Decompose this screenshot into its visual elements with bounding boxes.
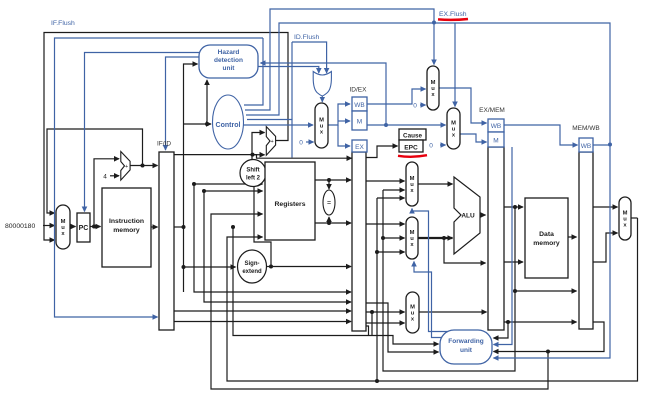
svg-text:Data: Data xyxy=(539,231,554,238)
wire ID/EX rt to forwarding unit xyxy=(366,303,439,352)
junction ID.Flush corner xyxy=(291,42,293,120)
svg-text:detection: detection xyxy=(214,57,243,64)
svg-text:0: 0 xyxy=(299,140,303,147)
wire ID.Flush from Control xyxy=(247,120,292,158)
wire store value to EX/MEM xyxy=(444,238,486,263)
wire EX/MEM rd to forwarding unit blue xyxy=(494,147,513,345)
ID/EX M box xyxy=(352,111,367,130)
wire rd lane from IF/ID xyxy=(174,321,351,323)
wire mux4 output xyxy=(631,217,638,219)
junction rd bus xyxy=(231,225,235,229)
wire instruction field to sign-extend xyxy=(184,266,236,268)
junction EX/MEM forward B xyxy=(381,236,385,240)
wire ForwardB from forwarding unit xyxy=(414,262,444,338)
svg-text:WB: WB xyxy=(491,123,501,130)
wire MEM/WB forward path to mux A xyxy=(377,197,405,199)
MEM/WB WB box xyxy=(579,138,593,152)
junction MEM/WB forward B xyxy=(375,250,379,254)
sign extend unit xyxy=(238,250,267,283)
mux M6 ALU input B xyxy=(406,217,418,259)
wire EX/MEM ALU result to data memory xyxy=(504,206,523,208)
svg-text:Registers: Registers xyxy=(275,201,306,208)
wire hazard detection PCWrite to PC xyxy=(85,53,200,212)
wire write data return xyxy=(227,218,638,381)
ID/EX pipeline register xyxy=(352,152,366,331)
wire MEM/WB ALU result to mux4 xyxy=(593,233,618,262)
wire IF.Flush from top-left down to IF/ID xyxy=(55,38,264,317)
junction write reg branch xyxy=(546,350,550,354)
wire ForwardA from forwarding unit xyxy=(412,209,452,332)
wire MEM/WB forward to mux B xyxy=(377,251,405,253)
wire shift-left-2 up to adder2 top input xyxy=(252,133,265,162)
wire mux2 out to EX/MEM M xyxy=(460,134,487,142)
wire IF/ID PC+4 lane xyxy=(174,154,253,156)
wire Control to ID.Flush mux xyxy=(243,124,313,126)
wire PC+4 to PC-mux top input xyxy=(47,129,143,213)
wire rt down join xyxy=(371,312,373,336)
svg-text:ALU: ALU xyxy=(461,213,475,220)
svg-text:EX: EX xyxy=(355,144,364,151)
wire ID/EX rd to mux3 xyxy=(366,322,405,324)
red underline EPC xyxy=(398,155,427,157)
wire read data 1 to ID/EX xyxy=(315,179,351,181)
OR gate xyxy=(313,72,331,97)
junction equality top xyxy=(327,178,331,182)
shift left 2 unit xyxy=(240,160,266,187)
svg-text:Sign-: Sign- xyxy=(245,261,260,267)
wire OR gate output to mux select xyxy=(321,96,323,102)
wire forward mux A out to ALU xyxy=(418,183,453,185)
wire adder1 output to IF/ID xyxy=(130,165,158,167)
mux M7 store-forward xyxy=(406,292,419,333)
svg-text:PC: PC xyxy=(79,225,89,232)
svg-text:IF.Flush: IF.Flush xyxy=(51,20,75,27)
wire ID/EX M to mux2 xyxy=(367,124,446,126)
junction bypass xyxy=(513,289,517,293)
junction sign-extend feed xyxy=(182,265,186,269)
svg-text:EX.Flush: EX.Flush xyxy=(439,11,467,18)
junction instruction bus xyxy=(182,225,186,229)
adder1 PC+4 xyxy=(121,152,130,181)
wire EX.Flush to mux2 xyxy=(454,23,456,107)
wire zero into mux1 xyxy=(420,104,426,106)
wire to ID/EX M xyxy=(338,120,350,122)
svg-text:left 2: left 2 xyxy=(246,176,261,182)
svg-text:memory: memory xyxy=(113,227,140,234)
junction write-back data to forward mux xyxy=(375,379,379,383)
wire EX/MEM rd to MEM/WB xyxy=(504,321,577,323)
wire zero into mux2 xyxy=(440,144,446,146)
wire EX/MEM forwarding vertical xyxy=(383,190,515,371)
wire PC+4 into adder2 bottom input xyxy=(253,154,265,156)
ALU xyxy=(454,177,480,254)
junction store value xyxy=(442,236,446,240)
cause register xyxy=(399,129,426,140)
wire ID/EX read2 to forward mux B xyxy=(366,223,405,225)
wire EX/MEM forward path to mux A xyxy=(383,189,405,191)
wire read register 2 number xyxy=(204,190,263,192)
wire hazard stall to OR gate xyxy=(258,67,319,74)
svg-text:unit: unit xyxy=(223,65,236,72)
junction EX/MEM rd xyxy=(506,320,510,324)
svg-text:Shift: Shift xyxy=(246,168,259,174)
wire zero into control mux xyxy=(306,141,314,143)
junction EX.Flush node xyxy=(432,21,436,25)
ID/EX EX box xyxy=(352,140,367,152)
wire stub up to hazard detection unit bottom xyxy=(206,80,208,124)
wire forward mux B out to ALU xyxy=(418,237,453,239)
MEM/WB pipeline register xyxy=(579,152,593,329)
svg-text:Hazard: Hazard xyxy=(218,49,240,56)
control unit xyxy=(213,95,244,149)
wire PC out to instruction memory xyxy=(90,226,101,228)
red underline EX.Flush xyxy=(438,18,468,21)
svg-text:=: = xyxy=(327,200,331,207)
junction hazard stub xyxy=(205,122,209,126)
wire ID/EX read1 to forward mux A xyxy=(366,180,405,182)
wire read data 2 to ID/EX xyxy=(315,222,351,224)
junction PC out xyxy=(92,225,96,229)
wire mux3 out to EX/MEM xyxy=(419,311,487,313)
wire rs field down xyxy=(194,184,351,292)
wire ALU result bypass to MEM/WB xyxy=(515,290,577,292)
instruction memory xyxy=(102,188,151,267)
wire PC+4 jog to ID/EX xyxy=(253,155,352,159)
junction EX.Flush right xyxy=(608,143,612,147)
EX/MEM WB box xyxy=(488,119,504,132)
junction hazard rt xyxy=(384,123,388,127)
wire sign-extend output to ID/EX xyxy=(267,266,352,268)
junction sign-extend out xyxy=(269,265,273,269)
wire data memory read data to MEM/WB xyxy=(568,236,577,238)
adder2 branch target xyxy=(266,127,275,156)
wire PC-mux out to PC xyxy=(70,226,76,228)
junction rt forward xyxy=(370,310,374,314)
svg-text:memory: memory xyxy=(533,240,560,247)
svg-text:+: + xyxy=(125,164,128,170)
wire control mux out to ID/EX WB/M/EX xyxy=(328,104,350,125)
svg-text:extend: extend xyxy=(242,269,262,275)
wire ID.Flush label line to OR gate xyxy=(292,42,327,73)
wire constant 4 into adder1 xyxy=(110,175,119,177)
mux M2 control zero (ID.Flush) xyxy=(315,103,328,148)
wire rt field down xyxy=(204,191,351,302)
hazard detection unit xyxy=(199,45,258,78)
forwarding unit xyxy=(440,330,492,364)
wire into equality comparator top xyxy=(328,180,330,189)
wire rd lane low xyxy=(233,227,439,344)
svg-text:M: M xyxy=(493,138,498,145)
wire MEM/WB memory data to mux4 xyxy=(593,206,618,208)
wire to ID/EX EX xyxy=(338,125,350,146)
wire EX/MEM store data to data memory xyxy=(504,261,523,263)
svg-text:unit: unit xyxy=(460,347,473,354)
mux M3 WB-zero (EX.Flush) xyxy=(427,66,439,110)
wire MEM/WB WB out xyxy=(593,144,610,146)
wire instruction to Control xyxy=(184,123,212,125)
svg-text:0: 0 xyxy=(429,143,433,150)
svg-text:+: + xyxy=(270,139,273,145)
svg-text:ID.Flush: ID.Flush xyxy=(294,34,320,41)
wire EX/MEM forward to mux B xyxy=(383,237,405,239)
wire shift-left-2 bottom to sign-extend output node xyxy=(254,187,271,267)
wire MEM/WB rd to forwarding unit xyxy=(494,322,605,352)
wire ALU result to EX/MEM xyxy=(480,214,486,216)
wire instruction memory out to IF/ID xyxy=(151,226,158,228)
wire EX/MEM WB to MEM/WB WB xyxy=(504,125,578,145)
svg-text:4: 4 xyxy=(103,173,107,180)
wire ID/EX stub join xyxy=(366,326,369,336)
mux M5 ALU input A xyxy=(406,162,418,206)
svg-text:ID/EX: ID/EX xyxy=(350,87,368,94)
svg-text:M: M xyxy=(357,119,362,126)
svg-text:EX/MEM: EX/MEM xyxy=(479,107,505,114)
mux M1 (PC source) xyxy=(56,205,70,249)
wire write register number return xyxy=(211,214,548,389)
svg-text:IF/ID: IF/ID xyxy=(157,141,171,148)
wire MEM/WB forwarding vertical xyxy=(376,198,378,381)
svg-text:80000180: 80000180 xyxy=(5,223,35,230)
data memory xyxy=(525,198,568,278)
wire EX/MEM rd down to forwarding unit xyxy=(494,322,509,338)
wire IF/ID instruction stub xyxy=(174,226,184,228)
junction branch adder feed xyxy=(251,153,255,157)
wire exception line to hazard/EX muxes xyxy=(245,9,434,110)
mux M4 M-zero (EX.Flush) xyxy=(447,108,460,149)
svg-text:Forwarding: Forwarding xyxy=(448,338,483,345)
svg-text:MEM/WB: MEM/WB xyxy=(572,125,599,132)
wire branch-target bus top (adder2 out up over to PC mux) xyxy=(44,33,288,241)
svg-text:WB: WB xyxy=(354,102,364,109)
wire EX.Flush from Control to top line xyxy=(246,23,610,358)
junction read reg 2 xyxy=(202,189,206,193)
mux M8 write-back xyxy=(619,197,631,240)
EPC register xyxy=(399,140,423,152)
junction read reg 1 xyxy=(192,182,196,186)
svg-text:0: 0 xyxy=(413,103,417,110)
svg-text:Cause: Cause xyxy=(403,133,422,140)
equality comparator xyxy=(323,190,335,215)
PC register xyxy=(77,213,90,242)
wire ID/EX rt to hazard detection unit xyxy=(261,63,387,125)
wire rt lane from IF/ID xyxy=(174,310,351,312)
svg-text:WB: WB xyxy=(581,143,591,150)
wire EPC feed from ID/EX xyxy=(366,146,398,158)
junction ALU result xyxy=(513,205,517,209)
EX/MEM M box xyxy=(488,132,504,147)
wire into equality comparator bottom xyxy=(328,217,330,223)
svg-text:Instruction: Instruction xyxy=(109,218,144,225)
wire IF.Flush fan from Control xyxy=(244,38,263,105)
wire instruction bus vertical xyxy=(184,64,198,292)
junction equality bottom xyxy=(327,221,331,225)
wire read register 1 number xyxy=(194,183,263,185)
ID/EX WB box xyxy=(352,97,367,111)
wire hazard detection IF/ID-Write to IF/ID xyxy=(166,57,200,150)
wire ID/EX WB to mux1 xyxy=(367,89,426,104)
svg-text:Control: Control xyxy=(216,122,241,129)
wire mux1 out to EX/MEM WB xyxy=(439,88,487,123)
wire ID/EX rt to mux3 and forwarding xyxy=(366,311,405,313)
IF/ID pipeline register xyxy=(159,152,174,330)
registers file xyxy=(265,162,315,240)
svg-text:EPC: EPC xyxy=(404,145,418,152)
EX/MEM pipeline register xyxy=(488,147,504,330)
wire 80000180 into PC mux xyxy=(43,225,55,227)
wire PC value up to adder1 xyxy=(94,159,119,227)
junction adder1 output xyxy=(141,164,145,168)
